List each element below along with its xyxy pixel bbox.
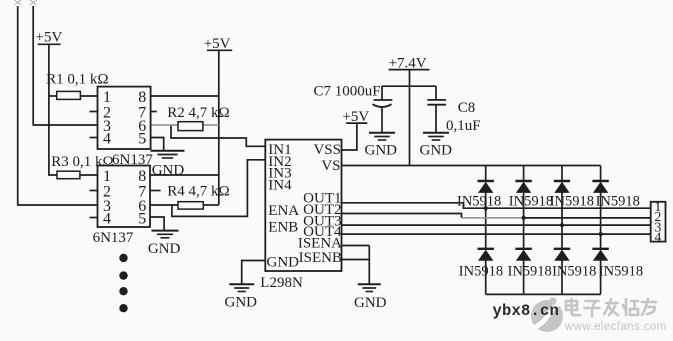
svg-text:6N137: 6N137	[93, 230, 134, 246]
svg-text:+5V: +5V	[36, 30, 63, 46]
svg-text:ENA: ENA	[268, 203, 299, 219]
svg-text:L298N: L298N	[260, 275, 303, 291]
svg-text:ISENB: ISENB	[299, 250, 342, 266]
svg-text:GND: GND	[420, 143, 453, 159]
svg-text:GND: GND	[152, 163, 185, 179]
svg-text:6N137: 6N137	[112, 152, 153, 168]
svg-text:4: 4	[103, 210, 111, 227]
svg-text:ISENA: ISENA	[298, 236, 342, 252]
svg-text:ENB: ENB	[268, 220, 298, 236]
svg-text:GND: GND	[365, 143, 398, 159]
svg-text:www.elecfans.com: www.elecfans.com	[564, 321, 667, 333]
svg-text:1: 1	[103, 168, 111, 185]
svg-text:IN5918: IN5918	[596, 193, 640, 209]
svg-text:IN5918: IN5918	[599, 264, 643, 280]
svg-text:8: 8	[138, 168, 146, 185]
svg-text:GND: GND	[267, 255, 300, 271]
svg-text:5: 5	[138, 210, 146, 227]
svg-text:IN5918: IN5918	[552, 264, 596, 280]
svg-text:IN5918: IN5918	[509, 193, 553, 209]
svg-text:R1 0,1 kΩ: R1 0,1 kΩ	[46, 72, 108, 88]
svg-text:VS: VS	[321, 158, 340, 174]
svg-text:8: 8	[138, 89, 146, 106]
svg-text:5: 5	[138, 130, 146, 147]
svg-text:IN5918: IN5918	[459, 264, 503, 280]
svg-text:VSS: VSS	[313, 142, 341, 158]
svg-text:IN5918: IN5918	[550, 193, 594, 209]
svg-text:GND: GND	[148, 241, 181, 257]
svg-text:IN5918: IN5918	[457, 193, 501, 209]
svg-text:ybx8.cn: ybx8.cn	[493, 302, 560, 320]
svg-text:4: 4	[103, 130, 111, 147]
svg-text:+5V: +5V	[204, 36, 231, 52]
svg-text:C8: C8	[458, 100, 476, 116]
svg-text:+7.4V: +7.4V	[389, 56, 427, 72]
svg-text:GND: GND	[354, 295, 387, 311]
svg-text:R2 4,7 kΩ: R2 4,7 kΩ	[167, 105, 229, 121]
svg-text:IN4: IN4	[268, 177, 292, 193]
svg-text:0,1uF: 0,1uF	[446, 118, 481, 134]
svg-text:1: 1	[103, 89, 111, 106]
svg-text:C7 1000uF: C7 1000uF	[314, 83, 381, 99]
svg-text:+5V: +5V	[342, 109, 369, 125]
svg-text:R4 4,7 kΩ: R4 4,7 kΩ	[167, 184, 229, 200]
svg-text:4: 4	[654, 230, 661, 245]
svg-text:GND: GND	[225, 295, 258, 311]
svg-text:IN5918: IN5918	[508, 264, 552, 280]
